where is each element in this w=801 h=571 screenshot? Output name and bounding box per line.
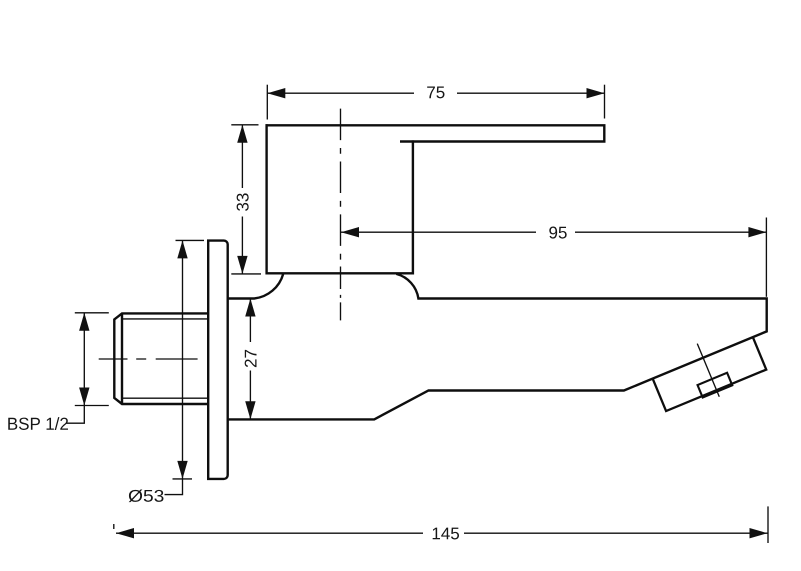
dim 33 extension bottom (231, 273, 261, 275)
dim BSP extension bottom (75, 405, 109, 407)
arrow BSP down (79, 388, 89, 406)
flange Ø53 (208, 241, 228, 479)
label 33 (rotated) (237, 193, 249, 211)
dim 33 line (241, 125, 243, 274)
dim BSP line and leader (66, 313, 84, 423)
aerator centerline (697, 344, 719, 397)
arrow 75 right (587, 88, 605, 98)
dim 27 line (249, 299, 251, 420)
dim diameter53 line and leader (165, 240, 183, 494)
dim 75 extension left (266, 85, 268, 120)
dim 75 line (267, 92, 604, 94)
thread root lines (thin) (122, 319, 208, 398)
arrow BSP up (79, 313, 89, 331)
dim 33 extension top (231, 124, 258, 126)
dim 145 extension left (short tick) (113, 524, 115, 529)
right fillet, spout top, right edge, angled end, underside (228, 274, 767, 420)
dim 145 extension right (767, 506, 769, 543)
dim 75 extension right (604, 85, 606, 119)
arrow 75 left (267, 88, 285, 98)
horizontal centerline of inlet (99, 358, 198, 360)
arrow 33 down (237, 256, 247, 274)
label BSP 1/2 (8, 417, 68, 430)
dim diameter53 extension top (176, 239, 205, 241)
vertical centerline of valve body (340, 109, 342, 321)
valve body block (267, 124, 413, 273)
arrow 145 right (750, 528, 768, 538)
dim 95 extension right (765, 218, 767, 297)
arrow diameter53 down (177, 461, 187, 479)
aerator insert small rect (698, 373, 733, 398)
label 95 (549, 227, 566, 239)
aerator body rect (653, 337, 767, 411)
arrow 33 up (237, 125, 247, 143)
lever plate (handle) (266, 125, 605, 141)
dim BSP extension top (75, 312, 109, 314)
label 27 (rotated) (245, 350, 257, 367)
label 145 (433, 528, 459, 540)
dim 145 line (116, 532, 768, 534)
label diameter 53 (129, 490, 164, 503)
dim 95 line (341, 231, 766, 233)
thread chamfer line (121, 313, 123, 404)
arrow diameter53 up (177, 240, 187, 258)
arrow 145 left (116, 528, 134, 538)
spout top-left segment and left fillet (228, 274, 283, 299)
arrow 95 left (341, 227, 359, 237)
label 75 (427, 87, 444, 99)
dim diameter53 extension bottom (173, 478, 193, 480)
arrow 27 up (245, 299, 255, 317)
arrow 27 down (245, 401, 255, 419)
threaded inlet BSP 1/2 outline (114, 313, 208, 404)
arrow 95 right (748, 227, 766, 237)
